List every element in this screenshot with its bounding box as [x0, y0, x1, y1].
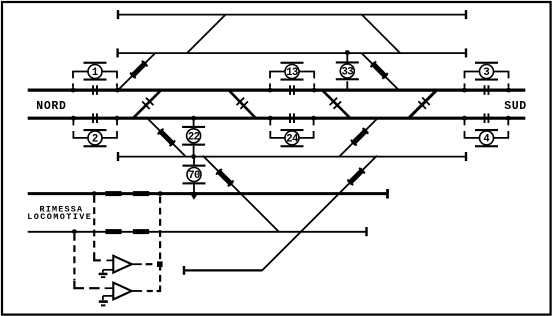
- turnout D6 main2 to lower siding: [148, 119, 186, 157]
- point machine on diagonal B: [346, 167, 366, 187]
- crossover D8 main1-main2 middle right: [322, 90, 350, 118]
- track circuit 24: [270, 113, 313, 147]
- point machine on diagonal C: [215, 168, 235, 188]
- dashed gate segments on rimessa upper line: [105, 191, 149, 196]
- logic gate 2: [103, 283, 132, 301]
- point machine on D9: [350, 127, 370, 147]
- turnout D3 top siding to siding2: [361, 14, 400, 53]
- track: diagonal C from lower siding to rimessa lower line: [203, 156, 279, 232]
- junction dots main line 1: [71, 88, 511, 93]
- svg-text:70: 70: [188, 170, 200, 182]
- logic gate 1: [103, 256, 132, 273]
- crossover D7 main1-main2 middle left: [229, 90, 256, 118]
- track: second siding line: [118, 48, 466, 57]
- svg-text:SUD: SUD: [504, 100, 527, 113]
- dashed control wire from lower line to gate 2 input: [74, 234, 113, 288]
- track: top siding line: [118, 10, 466, 19]
- svg-text:2: 2: [92, 133, 98, 145]
- track circuit 13: [270, 62, 314, 95]
- junction dot rimessa lower line: [72, 229, 77, 234]
- track circuit 70: [183, 157, 206, 193]
- junction dot siding2 at circle 33: [345, 50, 350, 55]
- ground symbol gate 2: [99, 300, 108, 306]
- track: long diagonal B from lower siding to stub line: [262, 156, 377, 271]
- junction dot rimessa upper line right: [158, 191, 163, 196]
- ground symbol gate 1: [99, 273, 108, 278]
- track: stub line bottom: [184, 266, 263, 275]
- turnout D1 main1 to siding2: [118, 53, 156, 90]
- track: rimessa upper line: [28, 189, 388, 199]
- svg-text:22: 22: [188, 131, 200, 143]
- track: lower siding line: [118, 152, 466, 161]
- track: main line 2: [28, 117, 526, 120]
- arrow at rimessa upper line from circle 70: [189, 192, 199, 199]
- point machine on D4: [369, 60, 389, 80]
- track circuit 4: [465, 113, 509, 147]
- gate 2 output wire: [132, 290, 142, 292]
- svg-text:4: 4: [483, 133, 490, 145]
- crossover D5 main1-main2 left: [133, 90, 161, 118]
- svg-text:1: 1: [92, 67, 98, 79]
- svg-text:LOCOMOTIVE: LOCOMOTIVE: [27, 212, 92, 222]
- junction square on output bus: [157, 261, 163, 267]
- junction dots main line 2: [71, 116, 511, 121]
- dashed output bus vertical: [147, 197, 160, 292]
- svg-text:13: 13: [286, 67, 298, 79]
- junction dot rimessa upper line left: [92, 191, 97, 196]
- gate 1 output wire: [132, 263, 153, 265]
- turnout D2 siding2 to top siding: [187, 14, 226, 53]
- point machine on D1: [129, 60, 149, 80]
- track: rimessa lower line: [28, 227, 367, 236]
- svg-text:3: 3: [483, 67, 489, 79]
- dashed gate segments on rimessa lower line: [105, 229, 149, 234]
- track circuit 2: [73, 113, 117, 147]
- svg-text:NORD: NORD: [36, 100, 66, 113]
- track: main line 1 NORD: [28, 88, 526, 91]
- track circuit 1: [73, 62, 117, 95]
- junction dot lower siding at circle 22: [191, 154, 196, 159]
- crossover D10 main1-main2 right: [409, 90, 436, 117]
- track circuit 3: [465, 62, 509, 95]
- turnout D4 siding2 to main1: [361, 53, 399, 90]
- track circuit 22: [182, 118, 205, 156]
- svg-text:33: 33: [342, 67, 354, 79]
- point machine on D6: [157, 128, 177, 148]
- track circuit 33: [336, 53, 359, 89]
- turnout D9 main2 to lower siding right: [339, 118, 377, 156]
- svg-text:24: 24: [286, 133, 299, 145]
- dashed control wire from upper line to gate 1 input: [94, 196, 113, 260]
